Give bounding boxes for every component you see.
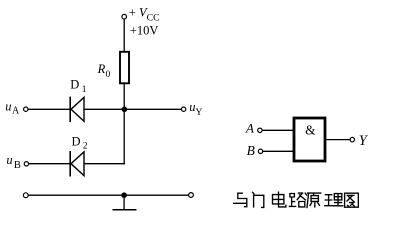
ground rail left terminal [23,193,28,198]
output terminal Y [350,137,354,141]
caption char 图 [345,193,359,207]
caption char 路 [289,193,306,207]
caption char 电 [273,192,286,207]
wire A to gate [262,129,292,131]
wire uA to diode D1 [28,108,69,110]
svg-text:R0: R0 [97,62,111,80]
diode D2 triangle [71,152,84,176]
caption char 门 [253,192,264,207]
power terminal +VCC [122,14,127,19]
input terminal uA [24,107,28,111]
svg-text:&: & [305,122,316,137]
svg-text:uB: uB [6,153,20,171]
wire B to gate [263,150,293,152]
wire D2 to riser corner [84,163,124,165]
input terminal A [258,128,262,132]
svg-text:uA: uA [5,99,20,116]
wire node Y to output terminal uY [124,108,181,110]
wire gate to terminal Y [327,139,350,141]
ground rail wire [28,194,188,196]
wire node Y down to D2 branch corner [123,109,125,163]
svg-text:D2: D2 [72,134,88,151]
svg-text:uY: uY [189,100,202,118]
caption char 与 [234,193,247,207]
svg-text:+10V: +10V [130,23,159,37]
svg-text:A: A [245,120,254,135]
svg-text:D1: D1 [70,77,86,94]
svg-text:+ VCC: + VCC [129,5,160,23]
wire VCC terminal to resistor R0 [123,19,125,51]
svg-text:Y: Y [359,133,369,149]
diode D1 triangle [71,97,84,121]
wire R0 to node Y [123,84,125,109]
and-gate U1 box [294,118,325,161]
input terminal uB [24,162,28,166]
svg-text:B: B [247,143,255,158]
diode D1 cathode bar [69,97,71,121]
ground symbol stub [123,195,125,209]
resistor R0 [120,52,129,84]
wire D1 to node Y [84,108,124,110]
caption char 原 [307,193,321,207]
ground symbol bar [113,209,136,211]
input terminal B [258,149,262,153]
wire uB to diode D2 [29,163,70,165]
diode D2 cathode bar [69,152,71,176]
output terminal uY [181,107,185,111]
caption char 理 [325,194,343,206]
ground rail right terminal [189,193,194,198]
ground rail junction dot [121,192,127,198]
node Y junction dot [122,107,128,113]
